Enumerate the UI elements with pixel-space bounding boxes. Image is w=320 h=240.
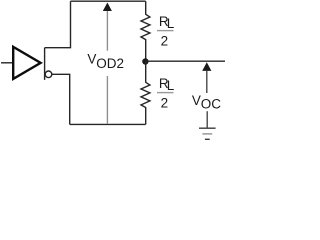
wire node to VOC — [145, 60, 225, 62]
resistor label RL/2 lower — [157, 76, 175, 111]
label VOC — [192, 93, 221, 112]
svg-text:2: 2 — [161, 34, 169, 49]
svg-text:2: 2 — [161, 96, 169, 111]
wire top rail — [71, 0, 146, 2]
wire bubble output — [52, 74, 70, 124]
svg-text:V: V — [87, 52, 96, 67]
wire bottom rail — [70, 123, 146, 125]
arrow VOD2 — [103, 3, 112, 125]
driver output bar — [44, 48, 46, 80]
label VOD2 — [87, 52, 124, 72]
svg-text:OD2: OD2 — [96, 56, 124, 71]
node — [142, 58, 148, 64]
resistor RL/2 lower — [141, 61, 150, 124]
arrow VOC — [202, 62, 211, 93]
wire top output — [45, 1, 71, 48]
driver buffer U1 — [13, 47, 40, 79]
svg-text:V: V — [192, 93, 201, 108]
resistor RL/2 upper — [141, 1, 150, 61]
svg-text:OC: OC — [201, 97, 222, 112]
inversion bubble — [45, 71, 52, 78]
svg-text:L: L — [167, 78, 175, 93]
ground — [199, 111, 216, 139]
svg-text:L: L — [167, 16, 175, 31]
wire input — [1, 62, 12, 64]
resistor label RL/2 upper — [157, 14, 175, 49]
